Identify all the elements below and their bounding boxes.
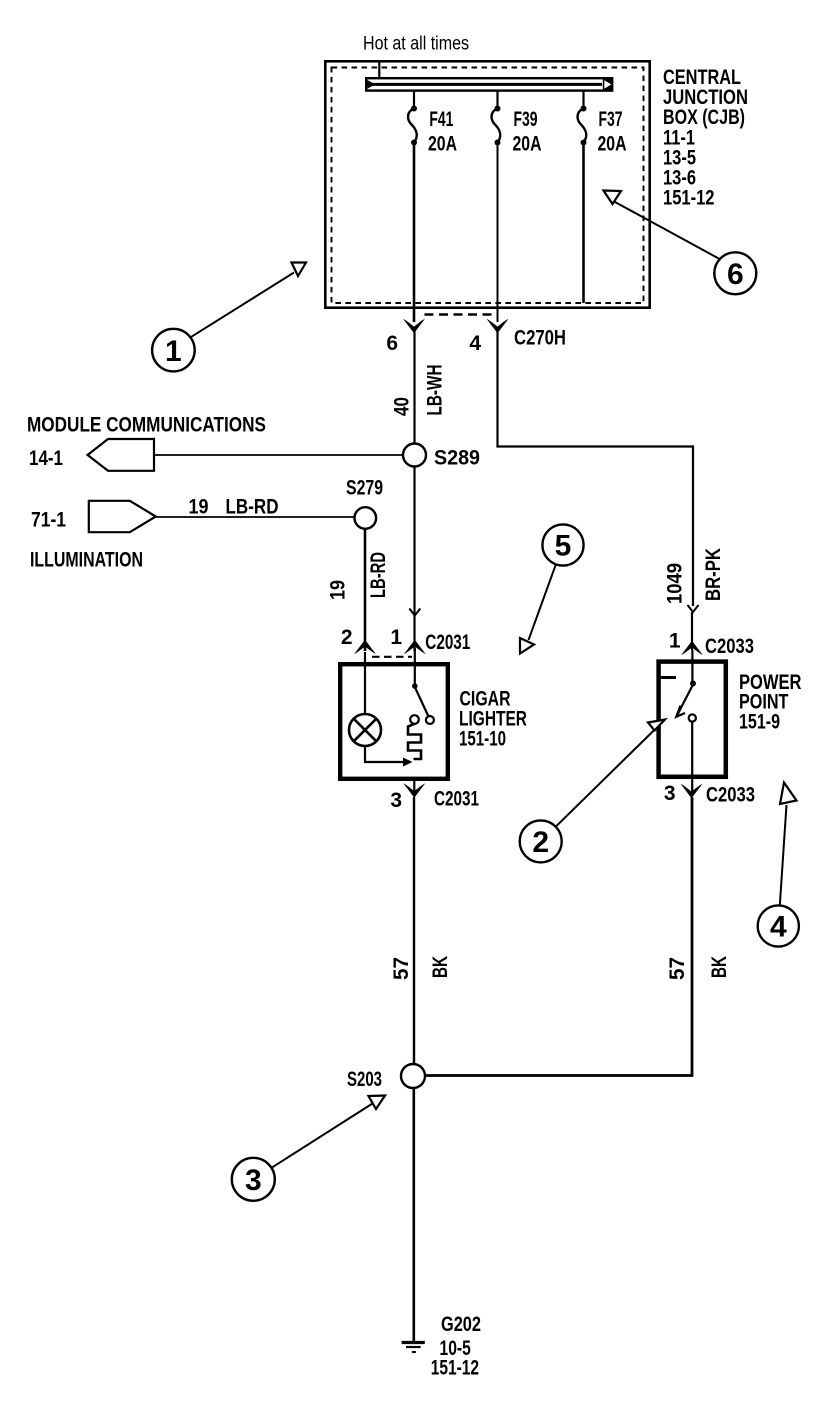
svg-text:1: 1 — [669, 630, 681, 653]
svg-text:14-1: 14-1 — [29, 447, 63, 470]
svg-text:151-12: 151-12 — [431, 1357, 479, 1380]
wire 19 LB-RD S279 to pin 2 — [364, 529, 367, 651]
cigar lighter name label — [459, 688, 527, 751]
wire C270H pin4 down and right to power point — [498, 330, 694, 606]
svg-text:6: 6 — [727, 258, 744, 291]
svg-text:2: 2 — [341, 626, 353, 649]
wire 57 BK power point to S203 — [425, 797, 692, 1076]
connector C270H pin 6 arrow — [403, 319, 425, 333]
wire F37 stub — [582, 143, 585, 304]
CJB name label — [663, 66, 748, 209]
svg-text:C2033: C2033 — [705, 635, 754, 658]
connector C270H pin 4 arrow — [487, 319, 509, 333]
cigar lighter heater element — [408, 724, 421, 759]
svg-text:BK: BK — [429, 956, 452, 978]
ground G202 symbol — [402, 1343, 425, 1353]
splice S203 — [401, 1064, 425, 1088]
ground G202 label — [431, 1313, 481, 1380]
wire label 1049 — [664, 563, 687, 604]
wire pin 2 to lamp — [364, 652, 366, 715]
fuse F41 wire from bus bar — [413, 91, 415, 107]
wire S289 to pin 1 — [413, 467, 415, 652]
wire illumination to S279 — [156, 516, 355, 518]
wire lamp to heater with arrow — [365, 746, 413, 767]
connector C2033 pin 1 arrow — [681, 641, 703, 655]
svg-text:F37: F37 — [599, 108, 623, 131]
fuse F39 wire from bus bar — [496, 91, 498, 107]
cigar lighter box — [340, 664, 448, 779]
wire label LB-RD rotated — [367, 552, 390, 598]
wire direction arrow — [409, 609, 420, 616]
fuse F37 — [578, 106, 587, 146]
power point switch — [676, 681, 696, 722]
callout 4 circle — [758, 905, 799, 946]
svg-text:LB-RD: LB-RD — [367, 552, 390, 598]
svg-text:S279: S279 — [346, 477, 383, 500]
callout 6 leader line — [615, 202, 720, 259]
callout 6 circle — [714, 252, 756, 294]
svg-text:20A: 20A — [598, 133, 627, 156]
svg-text:57: 57 — [390, 957, 413, 980]
wire F41 to C270H pin 6 — [413, 143, 416, 323]
callout 1 arrowhead — [292, 263, 307, 277]
cigar lighter switch — [410, 683, 434, 724]
wire label BR-PK — [702, 548, 725, 601]
svg-text:LB-RD: LB-RD — [226, 496, 279, 519]
wire 40 LB-WH pin6 to S289 — [413, 330, 415, 443]
callout 1 circle — [152, 329, 195, 372]
svg-text:3: 3 — [390, 789, 402, 812]
wire cigar box to pin 3 — [413, 781, 415, 793]
hot feed wire tick — [378, 61, 380, 78]
wire label 57 right — [666, 957, 689, 980]
wire module comm to S289 — [154, 454, 403, 456]
svg-text:2: 2 — [532, 826, 549, 859]
cigar lighter lamp — [349, 714, 381, 746]
connector C2031 pin 2 arrow — [354, 640, 376, 654]
wire direction arrow right branch — [688, 605, 699, 612]
svg-text:MODULE COMMUNICATIONS: MODULE COMMUNICATIONS — [27, 414, 266, 437]
fuse F39 — [492, 106, 501, 146]
wire into C2033 pin 1 — [691, 612, 693, 650]
wire label BK right — [708, 956, 731, 978]
callout 4 arrowhead — [780, 783, 797, 805]
splice S289 — [403, 444, 426, 467]
callout 3 circle — [232, 1158, 275, 1201]
central junction box CJB outer box — [325, 61, 649, 307]
connector C270H dashed line — [425, 313, 495, 315]
svg-text:151-9: 151-9 — [739, 711, 780, 734]
wire label LB-WH — [424, 365, 447, 416]
svg-text:F39: F39 — [514, 108, 538, 131]
svg-text:LB-WH: LB-WH — [424, 365, 447, 416]
wire label 19 rotated — [327, 580, 350, 600]
svg-text:C2031: C2031 — [434, 788, 479, 811]
svg-text:151-10: 151-10 — [459, 728, 506, 751]
wire label 40 — [391, 397, 414, 416]
svg-text:5: 5 — [555, 530, 572, 563]
svg-text:S289: S289 — [434, 447, 480, 470]
callout 2 circle — [520, 820, 562, 862]
connector C2031 pin 1 arrow — [404, 640, 426, 654]
callout 5 leader line — [529, 564, 556, 640]
svg-text:19: 19 — [189, 496, 209, 519]
wire label BK left — [429, 956, 452, 978]
wire switch contact to pin 3 — [691, 722, 693, 794]
svg-text:1049: 1049 — [664, 563, 687, 604]
callout 6 arrowhead — [604, 191, 622, 205]
svg-text:6: 6 — [386, 332, 398, 355]
svg-text:3: 3 — [664, 782, 676, 805]
wire pin 1 to switch hinge — [414, 648, 416, 684]
svg-text:57: 57 — [666, 957, 689, 980]
svg-text:BK: BK — [708, 956, 731, 978]
connector C2031 pin 3 arrow — [403, 783, 425, 797]
svg-text:BR-PK: BR-PK — [702, 548, 725, 601]
callout 2 arrowhead — [648, 720, 665, 731]
svg-text:4: 4 — [469, 332, 481, 355]
svg-text:C2033: C2033 — [706, 784, 755, 807]
dashed connector line at cigar lighter top — [372, 656, 412, 658]
callout 3 leader line — [272, 1104, 373, 1168]
central junction box CJB inner dashed box — [332, 68, 644, 304]
splice S279 — [355, 507, 377, 529]
callout 1 leader line — [191, 273, 295, 338]
callout 5 arrowhead — [520, 638, 534, 654]
callout 2 leader line — [556, 730, 655, 827]
svg-text:19: 19 — [327, 580, 350, 600]
svg-text:ILLUMINATION: ILLUMINATION — [30, 549, 143, 572]
svg-text:C2031: C2031 — [425, 631, 470, 654]
svg-text:71-1: 71-1 — [31, 509, 66, 532]
callout 4 leader line — [780, 805, 787, 906]
power point shell contact — [659, 676, 677, 679]
svg-text:1: 1 — [390, 626, 402, 649]
svg-text:151-12: 151-12 — [663, 186, 715, 209]
svg-text:4: 4 — [770, 911, 787, 944]
wire 57 BK cigar to S203 — [413, 797, 415, 1065]
svg-text:1: 1 — [165, 335, 182, 368]
svg-text:40: 40 — [391, 397, 414, 416]
wire label 57 left — [390, 957, 413, 980]
fuse F41 — [408, 106, 417, 146]
svg-text:S203: S203 — [347, 1068, 382, 1091]
svg-text:20A: 20A — [428, 133, 457, 156]
connector C2033 pin 3 arrow — [681, 784, 703, 798]
power point name label — [739, 671, 802, 734]
svg-text:C270H: C270H — [514, 327, 566, 350]
fuse F37 wire from bus bar — [582, 91, 584, 107]
svg-text:20A: 20A — [513, 133, 542, 156]
svg-text:G202: G202 — [441, 1313, 481, 1336]
svg-text:Hot at all times: Hot at all times — [363, 34, 469, 55]
svg-text:3: 3 — [245, 1164, 262, 1197]
svg-text:F41: F41 — [429, 108, 453, 131]
bus bar — [366, 78, 613, 90]
off-page arrow module communications — [88, 439, 154, 471]
wire S203 to ground — [412, 1088, 415, 1342]
callout 5 circle — [542, 524, 583, 565]
wire F39 to C270H pin 4 — [497, 143, 499, 323]
power point box — [659, 662, 726, 777]
callout 3 arrowhead — [369, 1096, 386, 1110]
wire pin 1 into switch — [691, 650, 693, 684]
off-page arrow illumination — [89, 501, 156, 532]
